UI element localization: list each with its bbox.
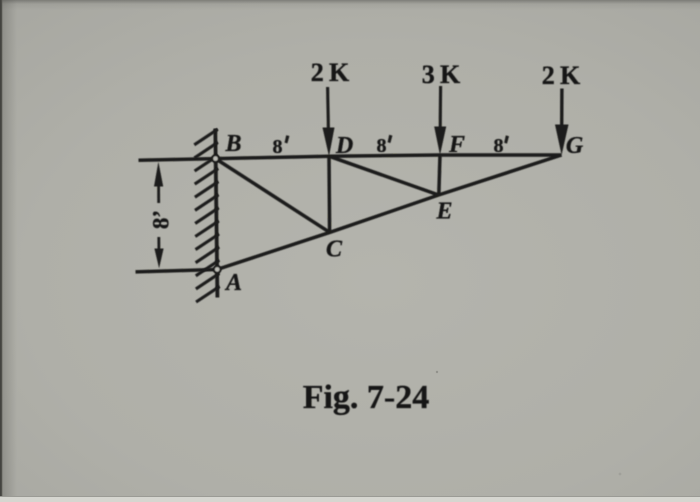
pin node circle at A: [214, 266, 221, 273]
svg-text:2 K: 2 K: [542, 61, 581, 90]
pin node circle at B: [212, 155, 219, 162]
svg-text:C: C: [326, 237, 343, 263]
load arrow at G (2K): [555, 89, 569, 156]
paper speck lower right: [619, 473, 622, 476]
svg-text:3 K: 3 K: [422, 60, 461, 89]
wire bottom extension line at A: [136, 270, 218, 272]
svg-text:B: B: [224, 131, 241, 157]
svg-text:8: 8: [377, 135, 387, 157]
wall hatching: [194, 129, 219, 302]
paper speck near caption: [436, 371, 438, 373]
svg-text:F: F: [448, 132, 465, 158]
wire top chord B-D-F-G with left extension line: [139, 155, 562, 160]
wall support line A-B: [215, 129, 217, 298]
wire diagonal member B-C: [216, 159, 330, 233]
load arrow at F (3K): [434, 86, 446, 155]
svg-text:A: A: [224, 270, 242, 296]
svg-text:8: 8: [273, 136, 283, 158]
svg-text:Fig. 7-24: Fig. 7-24: [303, 379, 430, 416]
svg-text:G: G: [566, 133, 584, 159]
svg-text:2 K: 2 K: [311, 58, 350, 87]
wire bottom chord A-C-E-G: [217, 155, 562, 270]
load arrow at D (2K): [323, 87, 335, 156]
svg-text:E: E: [435, 199, 452, 225]
dimension arrow down (left 8'): [154, 237, 163, 268]
wire vertical member F-E: [439, 155, 440, 195]
svg-text:8: 8: [494, 135, 504, 157]
wire vertical member D-C: [327, 156, 331, 232]
svg-text:8’: 8’: [148, 210, 173, 229]
dimension arrow up (left 8'): [154, 162, 163, 203]
svg-text:D: D: [335, 133, 353, 159]
wire diagonal member D-E: [329, 156, 439, 195]
